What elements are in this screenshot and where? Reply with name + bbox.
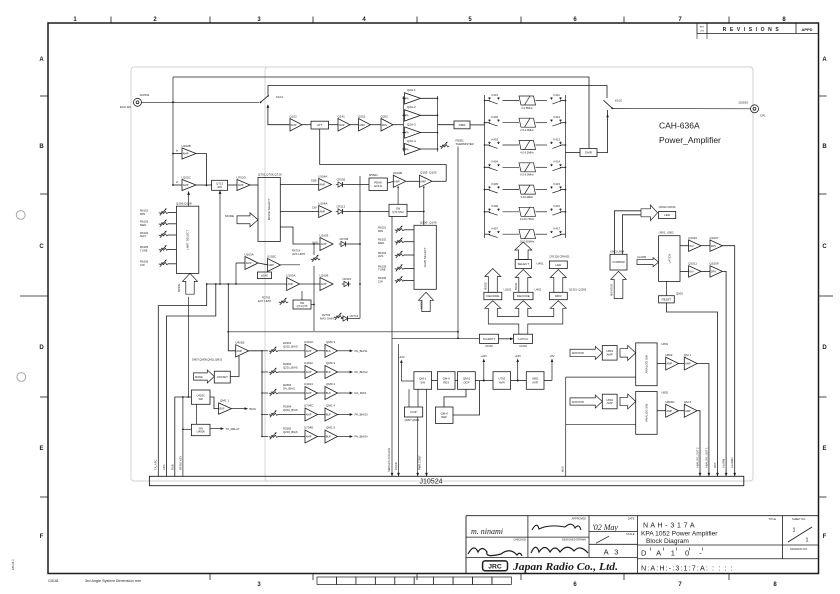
svg-text:DECODE: DECODE — [517, 294, 530, 298]
monitor arrow 2 — [570, 395, 602, 408]
svg-text:AMP: AMP — [246, 261, 252, 265]
svg-text:MONITOR: MONITOR — [572, 352, 584, 355]
wire Q141 to Q201 — [350, 124, 359, 126]
svg-text:K412: K412 — [554, 115, 561, 119]
PA bank input bus — [402, 96, 404, 152]
wire analog out 2 — [697, 411, 700, 477]
svg-text:ANALOG_OUT 2: ANALOG_OUT 2 — [695, 447, 699, 468]
amplifier Q141 — [338, 119, 350, 132]
relay K402 — [485, 122, 490, 124]
attenuator ATT — [311, 121, 329, 129]
svg-text:U102B: U102B — [182, 144, 191, 148]
punch hole lower — [17, 373, 26, 382]
relay K417 — [551, 231, 562, 238]
svg-text:AMP: AMP — [268, 263, 274, 267]
svg-text:K101: K101 — [276, 95, 283, 99]
svg-text:6.5-9.0MHz: 6.5-9.0MHz — [520, 173, 534, 177]
wire to U401B — [228, 284, 235, 351]
title block designed signature — [531, 547, 588, 553]
svg-text:Q1008: Q1008 — [710, 262, 719, 266]
svg-text:Q1007: Q1007 — [710, 236, 719, 240]
svg-text:LATCH: LATCH — [518, 337, 527, 341]
svg-text:AMP: AMP — [306, 413, 312, 417]
svg-text:3rd Angle System Dimension mm: 3rd Angle System Dimension mm — [85, 579, 141, 583]
svg-text:U401B: U401B — [235, 341, 244, 345]
svg-text:B: B — [39, 144, 44, 150]
svg-text:Q2A-4: Q2A-4 — [407, 139, 416, 143]
svg-text:K405: K405 — [492, 182, 499, 186]
svg-text:Q202_BIAS: Q202_BIAS — [283, 344, 298, 348]
svg-text:LED: LED — [664, 213, 671, 217]
svg-text:AMP: AMP — [685, 409, 691, 413]
svg-text:U702D: U702D — [237, 175, 247, 179]
svg-text:APC: APC — [162, 464, 166, 470]
mode input arrow — [237, 213, 258, 227]
svg-text:R5601: R5601 — [369, 173, 378, 177]
svg-text:Q204_BIAS: Q204_BIAS — [283, 408, 298, 412]
amplifier QM-2 out — [679, 410, 685, 412]
svg-text:MODE: MODE — [225, 214, 234, 218]
wire dup to sw — [408, 389, 410, 407]
svg-text:ALARM: ALARM — [722, 458, 726, 468]
svg-text:MODE SELECT: MODE SELECT — [267, 198, 271, 220]
amplifier U103C — [268, 259, 281, 272]
svg-text:APPROVED: APPROVED — [572, 517, 587, 521]
wire to U1006 — [300, 283, 321, 285]
svg-text:DRV: DRV — [711, 244, 717, 248]
svg-text:MODE: MODE — [484, 282, 488, 290]
svg-text:U103A: U103A — [245, 252, 254, 256]
wire latch row2 — [680, 270, 689, 272]
wire row2 to alarm bus — [722, 271, 726, 476]
svg-text:QT1T2F2: QT1T2F2 — [392, 210, 404, 214]
monitor arrow comparator — [611, 271, 627, 298]
wire ref feedback — [444, 389, 466, 407]
svg-text:K413: K413 — [554, 137, 561, 141]
wire input branch vertical — [172, 77, 174, 186]
svg-text:RFSIG KEY: RFSIG KEY — [178, 455, 182, 470]
svg-text:E: E — [39, 446, 43, 452]
svg-text:GAIN SELECT: GAIN SELECT — [423, 247, 427, 267]
amplifier U103A — [245, 257, 258, 270]
relay K415 — [551, 186, 562, 193]
switch box QM-1 SW — [414, 372, 432, 390]
svg-text:ANALOG SW: ANALOG SW — [644, 404, 648, 422]
relay K403 — [485, 144, 490, 146]
fold mark scale boxes — [317, 577, 336, 584]
svg-text:Q106- Q140: Q106- Q140 — [420, 220, 437, 224]
connector bus J10524 — [149, 476, 743, 485]
monitor arrow 1 — [570, 346, 602, 359]
svg-text:AMP: AMP — [238, 183, 244, 187]
wire Q202 to PA bank — [393, 124, 403, 126]
svg-text:SELECT: SELECT — [518, 262, 530, 266]
amplifier U103B — [393, 175, 405, 187]
svg-text:BUF: BUF — [326, 391, 332, 395]
svg-text:QM0 3: QM0 3 — [326, 340, 335, 344]
svg-text:QM0 4: QM0 4 — [326, 382, 335, 386]
driver to led arrow — [550, 270, 566, 293]
svg-text:LIMIT SELECT: LIMIT SELECT — [186, 230, 190, 250]
wire sw chain down — [196, 404, 198, 424]
wire U702D to MODE SELECT — [250, 184, 258, 186]
svg-text:SCHMITT: SCHMITT — [483, 337, 496, 341]
wire K102 down arrow — [606, 114, 609, 117]
svg-text:SW: SW — [198, 397, 203, 401]
svg-text:ALARM: ALARM — [637, 255, 647, 259]
svg-text:MAX: MAX — [140, 234, 146, 238]
amplifier U802 — [657, 363, 666, 365]
bandpass filter 4.0-6.5MHz — [503, 141, 548, 150]
svg-text:DA_BIAS: DA_BIAS — [283, 387, 295, 391]
amplifier U702D — [237, 180, 250, 191]
amplifier U4012 — [278, 371, 305, 373]
switch box U403C — [191, 390, 210, 404]
svg-text:1: 1 — [792, 528, 795, 534]
svg-text:br: br — [176, 150, 178, 153]
right margin centre divider — [819, 295, 834, 297]
power amplifier Q2A-4 — [403, 148, 405, 150]
amplifier U4014 — [278, 392, 305, 394]
svg-text:AMP: AMP — [306, 349, 312, 353]
wire feedback top run — [173, 77, 589, 148]
svg-text:SW: SW — [217, 185, 222, 189]
diode CR714 — [343, 316, 348, 321]
svg-text:AMP: AMP — [320, 183, 326, 187]
wire TX_APC drop — [158, 284, 206, 476]
svg-text:Q1301- Q1306: Q1301- Q1306 — [569, 287, 587, 291]
svg-text:F: F — [40, 534, 44, 540]
amplifier Q1007 — [710, 240, 722, 251]
svg-text:COMPAR: COMPAR — [612, 260, 624, 264]
wire U102C to SW Q713 — [196, 184, 212, 186]
svg-text:K417: K417 — [554, 227, 561, 231]
switch K101 — [260, 101, 262, 103]
amplifier U704C — [278, 414, 305, 416]
bandpass filter 9.0-14MHz — [503, 185, 548, 194]
wire K101 to amp chain — [268, 108, 290, 125]
svg-text:K406: K406 — [492, 204, 499, 208]
output PA_BIAS3 — [338, 414, 352, 416]
svg-text:KPA 1052 Power Amplifier: KPA 1052 Power Amplifier — [641, 530, 718, 537]
svg-text:AMP: AMP — [183, 183, 189, 187]
wire mux feed 1 — [566, 376, 636, 378]
amplifier U102C — [173, 184, 182, 186]
regulator U702 AVR — [493, 372, 511, 390]
tx relay output — [210, 428, 222, 430]
svg-text:BAND: BAND — [514, 283, 518, 290]
svg-text:U802: U802 — [661, 390, 668, 394]
svg-text:AMP: AMP — [321, 242, 327, 246]
svg-text:MAX GAIN: MAX GAIN — [320, 316, 334, 320]
svg-text:U1003: U1003 — [320, 233, 329, 237]
switch K102 — [611, 107, 613, 109]
svg-text:LEAK: LEAK — [261, 273, 268, 277]
svg-text:LATCH: LATCH — [667, 254, 671, 264]
wire mode arrow to U403C — [187, 297, 189, 397]
wire ref to rail — [453, 381, 480, 416]
svg-text:CR105: CR105 — [337, 177, 346, 181]
svg-text:CW: CW — [378, 280, 383, 284]
protector QM-5 OCP — [458, 372, 476, 390]
diode CR708 — [341, 241, 346, 246]
svg-text:PA: PA — [405, 131, 409, 135]
svg-text:sf: sf — [176, 181, 178, 184]
svg-text:SW: SW — [420, 380, 425, 384]
svg-text:AMP: AMP — [306, 391, 312, 395]
revisions block — [696, 23, 698, 34]
svg-text:Q701,Q706,Q716: Q701,Q706,Q716 — [258, 173, 282, 177]
svg-text:AMP: AMP — [321, 282, 327, 286]
amplifier block U804 — [602, 394, 617, 409]
svg-text:'02 May: '02 May — [592, 523, 618, 532]
wire compar to led 2 — [623, 215, 642, 255]
svg-text:1: 1 — [805, 538, 808, 544]
svg-text:QM1 4: QM1 4 — [326, 404, 335, 408]
amplifier block U803 — [602, 346, 617, 361]
wire ATT feedback — [320, 129, 447, 181]
bottom margin zone ticks — [209, 574, 211, 581]
amplifier QM11 — [219, 403, 232, 414]
svg-text:D: D — [822, 345, 827, 351]
output PA_BIAS2 — [338, 371, 352, 373]
svg-text:ANALOG SW: ANALOG SW — [644, 355, 648, 373]
wire U103C out — [281, 264, 301, 266]
output DA_BIAS — [338, 392, 352, 394]
svg-text:Q1011: Q1011 — [688, 262, 697, 266]
wire CR105 to peak hold — [345, 184, 369, 186]
svg-text:PA: PA — [405, 96, 409, 100]
comparator U903 U904 — [610, 254, 627, 270]
led arrow — [641, 205, 658, 221]
top margin zone ticks — [110, 17, 112, 24]
relay K413 — [551, 142, 562, 149]
wire RXB drop — [175, 397, 192, 476]
svg-text:Block Diagram: Block Diagram — [646, 538, 689, 545]
svg-text:U102C: U102C — [182, 175, 192, 179]
svg-text:U402: U402 — [535, 287, 542, 291]
diode CR113 — [338, 209, 343, 214]
wire Q713 to U702D — [228, 184, 237, 186]
svg-text:PA_BIAS4: PA_BIAS4 — [355, 435, 368, 439]
svg-text:SHEET NO.: SHEET NO. — [792, 517, 806, 521]
filter bank output bus — [565, 95, 567, 238]
relay K405 — [485, 189, 490, 191]
wire agc to schmitt — [392, 337, 480, 339]
svg-text:9.0-14MHz: 9.0-14MHz — [521, 195, 534, 199]
svg-text:J10530: J10530 — [738, 101, 748, 105]
svg-text:QM 2: QM 2 — [684, 400, 692, 404]
svg-text:DUP: DUP — [410, 410, 416, 414]
mode select block Q701-Q716 — [258, 177, 280, 241]
wire peak hold to U103B — [387, 182, 393, 184]
svg-text:MODE: MODE — [420, 300, 424, 309]
svg-text:U1101: U1101 — [504, 287, 512, 291]
svg-text:Power_Amplifier: Power_Amplifier — [659, 135, 721, 145]
svg-text:K411: K411 — [554, 93, 561, 97]
svg-text:K403: K403 — [492, 137, 499, 141]
svg-text:N:A:H:-:3:1:7:A: : : : :: N:A:H:-:3:1:7:A: : : : : — [641, 563, 734, 572]
wire compar to led 1 — [615, 211, 642, 255]
wire max gain row — [350, 318, 360, 320]
amplifier U1006 — [320, 278, 333, 291]
svg-text:14-20.7MHz: 14-20.7MHz — [520, 217, 535, 221]
wire RFSIG KEY drop — [182, 397, 184, 476]
amplifier QM-1 out — [679, 363, 685, 365]
svg-text:QM1 1: QM1 1 — [220, 398, 229, 402]
offset block — [214, 371, 230, 383]
reference QM-6 REF — [435, 407, 453, 423]
arrow u803 to sw1 — [620, 345, 636, 360]
svg-text:AMP: AMP — [183, 152, 189, 156]
gain select mode arrow — [419, 292, 434, 311]
svg-text:DA_BIAS: DA_BIAS — [355, 391, 367, 395]
wire offset out — [230, 356, 239, 377]
svg-text:A: A — [39, 57, 44, 63]
svg-text:U802: U802 — [665, 353, 673, 357]
svg-text:DRV: DRV — [711, 270, 717, 274]
svg-text:CAH-636A: CAH-636A — [659, 121, 700, 131]
svg-text:QM1 9: QM1 9 — [326, 426, 335, 430]
right margin zone ticks — [819, 95, 827, 97]
wire serial drops — [391, 216, 393, 476]
diode CR105 — [338, 182, 343, 187]
svg-text:K102: K102 — [615, 99, 622, 103]
wire filter bank to DMR2 — [566, 152, 581, 154]
amplifier Q103 Q105 — [420, 175, 433, 187]
amplifier U102B — [173, 153, 182, 155]
svg-text:CR115: CR115 — [343, 277, 352, 281]
wire ext limit — [311, 304, 314, 306]
svg-text:Q202: Q202 — [381, 114, 389, 118]
amplifier Q202 driver — [381, 119, 393, 132]
svg-text:U1006: U1006 — [320, 273, 329, 277]
svg-text:CR714: CR714 — [350, 314, 359, 318]
reset block Q903 — [659, 296, 675, 303]
svg-text:U4006: U4006 — [197, 430, 206, 434]
select block U401 — [515, 260, 531, 269]
svg-text:PA: PA — [405, 147, 409, 151]
svg-text:OCP: OCP — [463, 380, 469, 384]
svg-text:CW: CW — [140, 263, 145, 267]
led block CR1326 — [549, 261, 567, 269]
svg-text:U401C: U401C — [304, 340, 314, 344]
wire QT1 box to Q103 — [407, 211, 424, 213]
alarm arrow — [637, 258, 659, 267]
wire reset out — [667, 303, 718, 476]
bandpass filter 20.7-30MHz — [503, 230, 548, 239]
select to filter arrow — [515, 242, 532, 260]
svg-text:K416: K416 — [554, 204, 561, 208]
wire ATT to Q141 — [329, 124, 339, 126]
svg-text:BUF: BUF — [326, 349, 332, 353]
svg-text:ATT: ATT — [317, 123, 323, 127]
latch block U901 U902 — [659, 236, 680, 282]
svg-text:Q201_BIAS: Q201_BIAS — [283, 366, 298, 370]
svg-text:MED: MED — [140, 223, 146, 227]
svg-text:K401: K401 — [492, 93, 499, 97]
wire Q102 to ATT — [302, 124, 311, 126]
svg-text:AMP: AMP — [394, 179, 400, 183]
svg-text:TITLE: TITLE — [768, 517, 776, 521]
wire AVS limit bus — [313, 244, 315, 255]
amplifier Q102 — [290, 119, 302, 132]
relay K407 — [485, 233, 490, 235]
svg-text:C/8148: C/8148 — [48, 579, 59, 583]
svg-text:BUF: BUF — [326, 435, 332, 439]
svg-text:K404: K404 — [492, 160, 499, 164]
svg-text:DGND: DGND — [394, 462, 398, 470]
diode CR115 — [344, 281, 349, 286]
wire top loop to K102 — [268, 86, 607, 99]
JRC logo — [483, 561, 508, 571]
svg-text:MED: MED — [378, 241, 384, 245]
PA bank junction dots — [403, 98, 405, 100]
PA bank output bus — [437, 96, 439, 152]
svg-text:CHECKED: CHECKED — [513, 538, 526, 542]
relay K401 — [485, 100, 490, 102]
svg-text:A 3: A 3 — [604, 547, 621, 556]
svg-text:J10532: J10532 — [140, 93, 150, 97]
decode arrow band — [515, 270, 531, 293]
svg-text:AVR: AVR — [499, 380, 505, 384]
wire AVG row — [348, 243, 360, 245]
svg-text:RES: RES — [443, 380, 449, 384]
svg-text:HOLD: HOLD — [374, 184, 383, 188]
svg-text:MONITOR: MONITOR — [610, 284, 614, 296]
svg-text:THERMISTER: THERMISTER — [456, 142, 474, 146]
svg-text:MODE: MODE — [195, 375, 203, 379]
schmitt block U1002 — [480, 334, 499, 343]
svg-text:QM 1: QM 1 — [684, 353, 692, 357]
svg-text:K414: K414 — [554, 160, 561, 164]
amplifier QM1 9 — [318, 436, 326, 438]
power amplifier Q2A-2 — [403, 114, 405, 116]
svg-text:TX_APC: TX_APC — [154, 459, 158, 470]
variable resistor R2665 — [262, 436, 268, 438]
svg-text:MIN: MIN — [140, 212, 145, 216]
wire U103A to U103C — [258, 263, 268, 265]
svg-text:EXT LIMIT: EXT LIMIT — [258, 299, 272, 303]
relay K416 — [551, 208, 562, 215]
svg-text:DRIV: DRIV — [555, 294, 562, 298]
svg-text:Q2A-2: Q2A-2 — [407, 105, 416, 109]
svg-text:AMP: AMP — [237, 349, 243, 353]
wire main agc bus — [228, 331, 458, 333]
svg-text:AMP: AMP — [339, 123, 345, 127]
wire Q713 control — [219, 190, 221, 284]
decode fork arrows — [485, 301, 567, 335]
output PA_BIAS1 — [338, 350, 352, 352]
svg-text:+24V: +24V — [480, 354, 487, 358]
svg-text:Q1016: Q1016 — [688, 236, 697, 240]
output PA_BIAS4 — [338, 436, 352, 438]
wire pwr cont drops — [417, 417, 419, 476]
svg-text:ALARM1: ALARM1 — [730, 457, 734, 468]
svg-text:SSB: SSB — [311, 179, 317, 183]
switch box QT4 QT5 — [293, 300, 311, 309]
svg-text:B: B — [822, 144, 827, 150]
svg-text:U401: U401 — [537, 262, 545, 266]
svg-text:AMP: AMP — [288, 282, 294, 286]
svg-text:U103B: U103B — [393, 171, 402, 175]
svg-text:CPL: CPL — [760, 114, 766, 118]
svg-text:AMP: AMP — [420, 179, 426, 183]
svg-text:J10524: J10524 — [420, 479, 443, 486]
wire row1 to alarm bus — [722, 246, 734, 477]
svg-text:PA_BIAS2: PA_BIAS2 — [355, 370, 368, 374]
variable resistor R2662 — [262, 371, 268, 373]
